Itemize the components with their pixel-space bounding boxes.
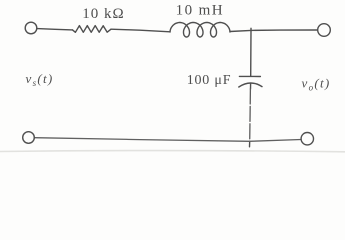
capacitor C 100 uF top plate xyxy=(239,75,260,77)
terminal bottom-right xyxy=(301,133,313,145)
terminal top-left xyxy=(25,22,37,34)
svg-text:vo(t): vo(t) xyxy=(302,76,331,93)
svg-text:vs(t): vs(t) xyxy=(26,71,54,88)
bottom rail wire xyxy=(34,138,301,142)
inductor L 10 mH xyxy=(170,23,230,38)
svg-text:10 mH: 10 mH xyxy=(176,3,224,19)
svg-text:100 μF: 100 μF xyxy=(187,73,232,88)
junction tick below bottom rail xyxy=(249,141,251,147)
node junction tick xyxy=(250,28,252,30)
wire top-left to resistor xyxy=(37,29,72,30)
wire inductor to output terminal xyxy=(230,30,317,32)
terminal top-right xyxy=(318,24,331,37)
resistor R 10 kOhm xyxy=(73,26,112,33)
capacitor stub through bottom plate xyxy=(250,84,252,89)
svg-text:10 kΩ: 10 kΩ xyxy=(82,6,124,22)
wire resistor to inductor xyxy=(111,29,170,32)
capacitor C 100 uF bottom plate xyxy=(239,83,262,87)
wire junction down to capacitor xyxy=(250,30,252,76)
scan artifact faint line xyxy=(0,151,345,152)
wire capacitor to bottom rail xyxy=(249,89,252,141)
terminal bottom-left xyxy=(23,132,35,144)
